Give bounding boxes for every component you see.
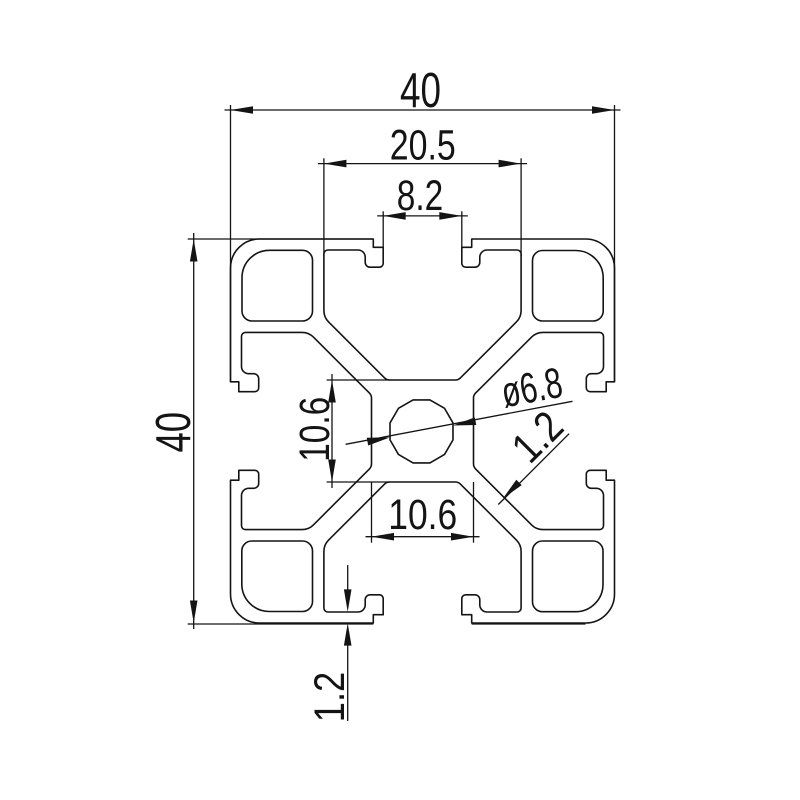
- corner chamber top-left: [242, 250, 313, 321]
- profile outer boundary with T-slots: [231, 239, 615, 623]
- leader 1.2 web thickness: [498, 402, 573, 504]
- leader diameter 6.8: [346, 359, 573, 446]
- corner chamber bottom-right: [533, 541, 604, 612]
- svg-text:40: 40: [400, 63, 441, 118]
- corner chamber top-right: [533, 251, 604, 322]
- dimension 8.2: [377, 172, 468, 250]
- dimension 10.6 core vertical: [291, 374, 390, 488]
- dimension 20.5: [318, 121, 527, 256]
- corner chamber bottom-left: [242, 541, 313, 612]
- center hole o6.8: [390, 400, 453, 463]
- dimension 10.6 core width: [366, 482, 480, 543]
- svg-text:40: 40: [146, 412, 201, 453]
- svg-text:20.5: 20.5: [390, 121, 456, 169]
- svg-text:1.2: 1.2: [306, 672, 354, 723]
- dimension 40 left: [146, 233, 586, 629]
- dimension 1.2 bottom wall: [306, 565, 354, 722]
- svg-text:10.6: 10.6: [388, 491, 457, 539]
- dimension 40 top: [225, 63, 621, 382]
- svg-text:8.2: 8.2: [397, 172, 444, 220]
- svg-text:10.6: 10.6: [291, 397, 339, 462]
